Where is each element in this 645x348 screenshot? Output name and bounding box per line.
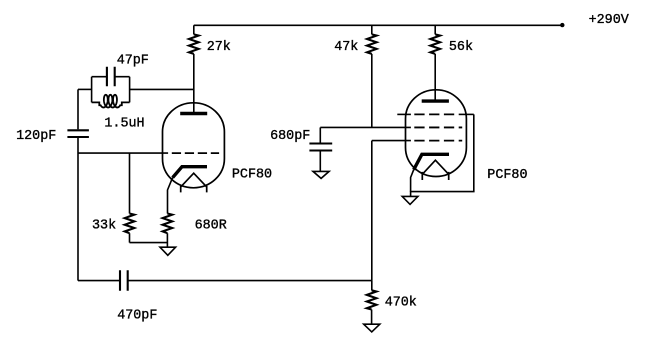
grid (dashed) V1 [172, 152, 219, 154]
resistor R5 470k [371, 281, 373, 291]
wire: 47k down to screen node [371, 54, 373, 128]
tube V1 PCF80 triode envelope [163, 103, 225, 188]
wire: screen grid g2 wire [320, 126, 411, 128]
grid g1 (dashed) V2 [414, 140, 462, 142]
wire: 120pF down to grid node and bottom wire [77, 138, 79, 281]
wire: +290V supply rail [194, 24, 563, 26]
wire: left vertical from tank to 120pF [77, 89, 79, 129]
svg-text:47pF: 47pF [117, 53, 149, 68]
anode bar V1 [180, 112, 207, 115]
wire: tank side rails [92, 77, 130, 103]
resistor R3 680R [163, 214, 173, 234]
ground: under 680pF [313, 171, 329, 178]
ground: under 680R [160, 247, 176, 255]
svg-text:120pF: 120pF [16, 129, 56, 144]
svg-text:470k: 470k [385, 295, 417, 310]
svg-text:27k: 27k [207, 40, 231, 55]
inductor L1 1.5uH (tank bottom branch) [92, 95, 130, 108]
node: supply rail end dot [560, 23, 564, 27]
svg-text:PCF80: PCF80 [487, 168, 527, 183]
svg-text:+290V: +290V [589, 13, 629, 28]
svg-text:33k: 33k [92, 218, 116, 233]
ground: under 470k [364, 324, 380, 332]
tube V2 PCF80 pentode envelope [406, 90, 467, 177]
ground: under tube2 cathode [402, 196, 418, 204]
wire: 56k down to tube2 anode [434, 54, 436, 101]
wire: tank right to anode line [130, 88, 194, 90]
wire: grid node to tube1 grid [78, 152, 168, 154]
resistor R6 56k [434, 25, 436, 34]
anode bar V2 [422, 99, 449, 102]
wire: tank left stub [78, 88, 92, 90]
capacitor C3 680pF [319, 127, 321, 142]
heater V2 [422, 160, 448, 174]
svg-text:47k: 47k [334, 40, 358, 55]
svg-text:680R: 680R [195, 219, 227, 234]
wire: 33k bottom to 680R bottom [130, 242, 168, 244]
svg-text:1.5uH: 1.5uH [104, 116, 144, 131]
svg-text:PCF80: PCF80 [232, 167, 272, 182]
capacitor C2 120pF [67, 130, 89, 137]
capacitor C1 47pF (tank top branch) [92, 76, 130, 78]
heater V1 [181, 173, 207, 187]
wire: 27k to tube1 anode [193, 54, 195, 114]
capacitor C4 470pF [78, 280, 120, 282]
grid g3 (dashed) V2 [397, 113, 411, 115]
wire: g1 wire [372, 140, 411, 142]
cathode V1 [173, 167, 207, 178]
wire: g1 node down to 470k [371, 141, 373, 281]
svg-text:56k: 56k [449, 40, 473, 55]
suppressor return wire V2 [411, 114, 474, 196]
cathode V2 [414, 154, 449, 169]
svg-text:680pF: 680pF [270, 129, 310, 144]
resistor R2 33k [129, 153, 131, 213]
resistor R1 27k [193, 25, 195, 34]
grid g2 (dashed) V2 [414, 126, 462, 128]
resistor R4 47k [371, 25, 373, 34]
svg-text:470pF: 470pF [117, 308, 157, 323]
